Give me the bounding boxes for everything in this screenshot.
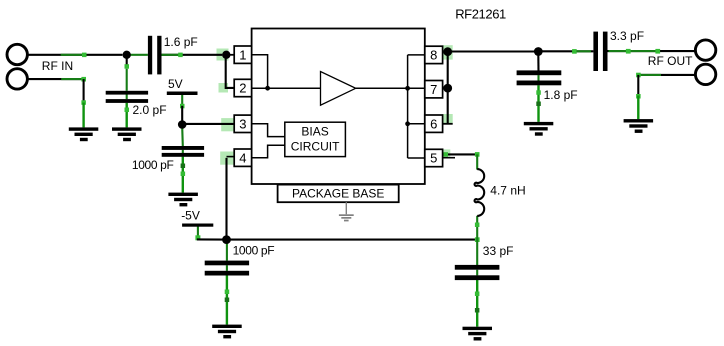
- wire junction C to pin3: [185, 123, 234, 125]
- svg-text:1000 pF: 1000 pF: [233, 243, 275, 257]
- port RF OUT bottom: [695, 64, 715, 84]
- ground C6 branch: [524, 122, 554, 136]
- wire node E down to C5 33pF (green): [476, 240, 478, 266]
- node pin6 highlight: [442, 114, 453, 123]
- wire pin8 down to pin6: [447, 53, 449, 124]
- U1 wires pin3/pin4 to bias circuit: [252, 124, 285, 158]
- wire C4 to ground (green): [226, 276, 228, 325]
- wire C5 to ground (green): [476, 280, 478, 327]
- node pin2 highlight: [219, 83, 229, 93]
- package base box: [278, 185, 399, 203]
- wire junction A down to C2 (black then green): [126, 57, 128, 66]
- junction pin7 dot: [443, 84, 452, 93]
- wire C6 to ground (green): [537, 85, 539, 122]
- amplifier triangle: [321, 72, 356, 106]
- wire junction D to node E (bottom net): [227, 239, 478, 241]
- wire junction B to pin1: [226, 54, 234, 56]
- svg-text:PACKAGE BASE: PACKAGE BASE: [292, 186, 384, 200]
- U1 internal node dot pin1/2: [265, 86, 270, 91]
- wire inductor bottom to node E (green): [476, 216, 478, 240]
- svg-text:1000 pF: 1000 pF: [132, 158, 174, 172]
- pin 2: [234, 79, 251, 96]
- U1 internal input bus pin1-pin2: [252, 55, 321, 88]
- capacitor C5 33 pF (shunt): [455, 265, 500, 280]
- svg-text:6: 6: [430, 116, 437, 131]
- svg-text:8: 8: [430, 48, 437, 63]
- wire C7 right plate to RF OUT port: [608, 50, 696, 52]
- package base gray ground: [339, 202, 354, 221]
- svg-text:5V: 5V: [168, 77, 183, 91]
- svg-text:RF IN: RF IN: [42, 59, 73, 73]
- inductor L1 4.7 nH: [475, 169, 485, 216]
- wire junction G down to C6 1.8pF: [537, 54, 539, 71]
- capacitor C4 1000 pF (bottom shunt): [205, 261, 249, 276]
- wire C2 inter-plate and to ground (green): [99, 94, 127, 96]
- svg-text:5: 5: [430, 151, 437, 166]
- supply -5V bar: [182, 224, 213, 227]
- wire junction G to C7 3.3pF left plate: [541, 50, 593, 52]
- U1 internal bus dot pin7: [405, 86, 410, 91]
- pin 6: [425, 115, 443, 132]
- pin 1: [234, 46, 251, 63]
- pin 8: [425, 46, 443, 63]
- ground C3 branch: [168, 193, 198, 207]
- capacitor C1 1.6 pF (series): [148, 36, 162, 75]
- wire RFIN bottom: port right then down to ground: [28, 78, 84, 80]
- wire C3 to ground (green): [182, 157, 184, 193]
- junction B dot: [222, 51, 230, 59]
- svg-text:1.6 pF: 1.6 pF: [164, 35, 198, 49]
- ground RF OUT branch: [624, 119, 654, 133]
- ground C2 branch: [112, 127, 142, 141]
- wire RFIN top: port to junction A: [28, 54, 122, 56]
- svg-text:1: 1: [239, 47, 246, 62]
- pin 7: [425, 81, 443, 98]
- svg-text:BIAS: BIAS: [301, 124, 328, 138]
- capacitor C2 2.0 pF (shunt): [106, 91, 148, 103]
- wire junction B down to pin2: [226, 56, 235, 88]
- svg-text:3: 3: [239, 117, 246, 132]
- junction F dot (pin8): [443, 47, 452, 56]
- U1 internal bus dot pin6: [405, 121, 410, 126]
- port RF IN bottom: [7, 69, 27, 89]
- op-amp U1 RF21261 body: [252, 29, 425, 185]
- U1 internal output bus pin8-pin5: [408, 55, 425, 158]
- svg-text:3.3 pF: 3.3 pF: [610, 29, 644, 43]
- svg-text:7: 7: [430, 82, 437, 97]
- svg-text:2: 2: [239, 81, 246, 96]
- wire -5V to junction D: [197, 238, 223, 240]
- node pin3 highlight: [221, 118, 234, 131]
- wire junction A to C1 left plate (green): [129, 54, 148, 56]
- ground C4 branch: [212, 325, 242, 339]
- ground RF IN branch: [69, 127, 99, 141]
- supply +5V bar: [167, 92, 198, 96]
- node pin1 highlight: [217, 49, 229, 61]
- svg-text:4: 4: [239, 150, 246, 165]
- wire C1 right green segment: [162, 54, 181, 56]
- svg-text:1.8 pF: 1.8 pF: [544, 88, 578, 102]
- capacitor C7 3.3 pF (series): [593, 32, 607, 71]
- wire RFIN top green segment: [61, 54, 85, 56]
- junction C dot: [178, 120, 187, 129]
- junction A dot: [123, 51, 131, 59]
- wire RF OUT bottom port to ground: [638, 74, 695, 76]
- pin 4: [234, 149, 251, 166]
- wire junction D up to pin4: [225, 158, 227, 240]
- ground C5 branch: [463, 327, 493, 341]
- wire junction D down to C4 1000pF (green): [226, 243, 228, 261]
- node pin5 highlight: [442, 149, 451, 156]
- svg-text:33 pF: 33 pF: [483, 244, 514, 258]
- node pin4 highlight: [220, 152, 233, 165]
- svg-text:2.0 pF: 2.0 pF: [133, 103, 167, 117]
- svg-text:RF OUT: RF OUT: [648, 54, 693, 68]
- pin 3: [234, 115, 251, 132]
- svg-text:4.7 nH: 4.7 nH: [490, 184, 525, 198]
- wire pin5 to inductor top: [443, 153, 477, 155]
- capacitor C3 1000 pF (top shunt): [162, 146, 204, 157]
- wire C1 right plate to junction B: [162, 54, 223, 56]
- capacitor C6 1.8 pF (shunt): [517, 70, 562, 85]
- wire -5V stem (green): [197, 226, 199, 239]
- wire 5V stem down to junction C: [181, 95, 183, 106]
- pin 5: [425, 149, 443, 166]
- node pin8 highlight: [443, 45, 453, 59]
- port RF OUT top: [695, 40, 715, 60]
- svg-text:-5V: -5V: [181, 208, 200, 222]
- junction G dot: [534, 47, 543, 56]
- junction D dot: [222, 235, 231, 244]
- svg-text:RF21261: RF21261: [455, 7, 506, 22]
- bias circuit box: [285, 122, 346, 156]
- port RF IN top: [7, 44, 27, 64]
- wire junction C down to C3 1000pF (green): [181, 127, 184, 146]
- svg-text:CIRCUIT: CIRCUIT: [291, 139, 340, 153]
- U1 output wire to bus: [356, 87, 408, 89]
- wire pin8 junction F to junction G: [450, 50, 538, 52]
